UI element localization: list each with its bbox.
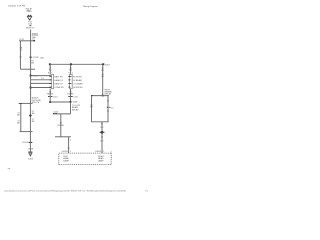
inline connector C4004 — [100, 131, 105, 134]
wire pin arrow mark — [68, 139, 69, 141]
switch pin marks — [68, 76, 71, 88]
wire label — [90, 104, 93, 108]
left switch output wire — [49, 89, 51, 102]
svg-text:C410: C410 — [53, 111, 59, 113]
bus bar node C — [19, 102, 33, 104]
inline connector C1003 — [29, 142, 30, 143]
inline connector C1052 — [107, 106, 109, 109]
splice square S207 — [102, 63, 104, 65]
svg-text:15A: 15A — [28, 22, 32, 25]
bus bar node D — [20, 131, 33, 133]
splice dot S203 — [30, 87, 32, 89]
svg-text:FLSH FD: FLSH FD — [73, 76, 82, 78]
wire main down — [30, 41, 32, 69]
svg-text:RD: RD — [101, 140, 104, 142]
wire from fuse down to bus1 — [30, 30, 32, 41]
ground wire down — [29, 132, 31, 152]
wire label 57 BK — [17, 113, 21, 125]
svg-text:Wiring Diagram: Wiring Diagram — [83, 6, 98, 8]
wire label — [67, 91, 74, 95]
left drop wire — [91, 96, 93, 122]
splice S208 — [70, 101, 72, 103]
left headlamp label — [63, 156, 69, 163]
bus bar node E — [55, 136, 71, 138]
branch wire pin2 — [31, 79, 52, 81]
text block ground distribution — [32, 97, 42, 104]
svg-text:RELAY: RELAY — [72, 108, 79, 111]
branch wire pin4 — [31, 87, 52, 89]
takeout diamond — [29, 114, 32, 117]
svg-text:HORN FD: HORN FD — [73, 87, 83, 89]
wire left branch down — [19, 41, 21, 69]
wire label — [58, 122, 65, 127]
multifunction switch box (right) — [70, 75, 73, 89]
headlamps text block — [105, 89, 113, 95]
wire label — [101, 68, 104, 78]
wire label CB 12 — [19, 47, 23, 58]
wire label — [107, 101, 110, 103]
svg-text:RD: RD — [101, 70, 104, 72]
lamp drop wire — [68, 137, 70, 153]
right pair wire down — [29, 103, 31, 131]
wire label — [68, 67, 73, 74]
wire label tick — [29, 24, 31, 27]
svg-text:RD: RD — [90, 107, 93, 109]
svg-text:RD: RD — [69, 69, 72, 71]
wire label ticks — [48, 67, 53, 74]
svg-text:RD: RD — [49, 69, 52, 71]
wire to splice S208 — [50, 101, 70, 103]
svg-text:LO BEAM: LO BEAM — [73, 83, 82, 86]
multifunction switch feed wire — [70, 65, 72, 74]
splice S201 — [33, 40, 35, 41]
wire label block right of main wire — [32, 34, 39, 41]
right feeder wire down — [102, 65, 104, 95]
splice square S206 — [70, 63, 72, 65]
ground G103 — [28, 152, 34, 161]
svg-text:TIMES: TIMES — [26, 11, 32, 13]
svg-text:C1003: C1003 — [22, 142, 29, 144]
svg-text:15A: 15A — [40, 56, 44, 59]
right drop wire — [107, 96, 109, 122]
headlamp feed text block — [72, 105, 80, 111]
svg-text:RD: RD — [101, 127, 104, 129]
wire down jog — [60, 114, 62, 137]
connector label C4003 — [61, 148, 72, 153]
svg-text:PARK LP: PARK LP — [54, 83, 63, 86]
svg-text:C4003: C4003 — [61, 151, 68, 153]
svg-text:C4004: C4004 — [95, 151, 102, 153]
svg-text:DOME FD: DOME FD — [54, 87, 64, 89]
svg-text:BATT FD: BATT FD — [54, 75, 63, 78]
svg-text:SPLICE: SPLICE — [32, 102, 40, 104]
svg-text:LAMP: LAMP — [98, 160, 104, 163]
wire label — [47, 91, 54, 95]
bus bar node G — [91, 121, 109, 123]
svg-text:1/6/2021 1:09 PM: 1/6/2021 1:09 PM — [8, 5, 25, 7]
switch pin labels — [73, 76, 83, 89]
svg-text:LAMP: LAMP — [63, 160, 69, 163]
inline connector C410 — [53, 112, 55, 115]
wire label — [32, 111, 35, 123]
switch pin labels — [54, 75, 64, 89]
fuse F1.13 (battery junction box) — [27, 15, 31, 20]
wire label — [101, 123, 104, 129]
splice dot S209 — [102, 95, 104, 97]
wire down from S208 — [70, 103, 72, 114]
branch wire pin3 — [31, 82, 52, 84]
svg-text:RD: RD — [101, 76, 104, 78]
inline connector C110 — [48, 96, 50, 97]
left pair wire down — [20, 103, 22, 131]
lamp assembly dashed box — [59, 153, 111, 165]
power source label HOT AT ALL TIMES — [26, 8, 33, 13]
bus bar node A — [19, 40, 34, 42]
svg-text:HI BEAM: HI BEAM — [73, 79, 82, 82]
svg-text:57 BK: 57 BK — [28, 149, 34, 151]
splice dot S202 — [30, 75, 32, 77]
fuse value label — [28, 21, 32, 25]
connector tick — [20, 103, 22, 104]
bus bar node F — [91, 95, 109, 97]
inline connector C1035 — [29, 56, 32, 59]
right headlamp label — [98, 156, 105, 163]
right switch output wire — [70, 89, 72, 102]
svg-text:C1035: C1035 — [33, 57, 40, 59]
branch wire pin1 — [31, 75, 52, 77]
main wire down from bus B — [30, 69, 32, 103]
jog wire left — [53, 113, 71, 115]
distribution bus right — [50, 63, 103, 65]
headlamp switch box (left) — [51, 75, 53, 89]
svg-text:RD/BK: RD/BK — [67, 94, 74, 96]
svg-text:G104: G104 — [28, 159, 34, 161]
switch pin marks — [49, 76, 51, 88]
left headlamp switch feed wire — [49, 65, 51, 74]
svg-text:HEAD LP: HEAD LP — [54, 79, 63, 82]
svg-text:RD/BK: RD/BK — [47, 94, 54, 96]
inline connector C111 — [68, 96, 70, 97]
wire label — [31, 60, 34, 64]
splice square S205 — [49, 63, 51, 65]
bus bar node B — [20, 68, 35, 70]
svg-text:www.fordservicecontent.com/For: www.fordservicecontent.com/Ford_Content/… — [4, 190, 126, 193]
svg-text:RELAY: RELAY — [105, 93, 112, 96]
svg-text:en: en — [8, 168, 10, 170]
svg-text:C110: C110 — [53, 97, 59, 99]
svg-text:SB13 GY: SB13 GY — [26, 27, 35, 29]
corner dot — [49, 101, 51, 103]
svg-text:RD/BK: RD/BK — [58, 125, 65, 127]
lamp wire down right — [101, 122, 103, 153]
